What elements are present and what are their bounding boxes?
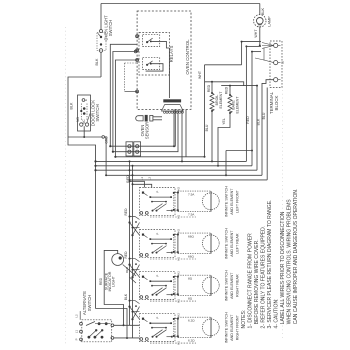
wire: cascade stub 2 (246, 45, 261, 47)
wire: indicator top loop (104, 250, 123, 325)
dashed inter-row pilot line (150, 300, 196, 302)
wire: lamp to terminal 1 (259, 27, 261, 46)
infinite switch row 3 (RIGHT REAR) (140, 272, 176, 300)
terminal 1 (274, 43, 278, 47)
wire: relay K1 wrap (151, 41, 170, 48)
svg-text:P: P (156, 191, 160, 193)
svg-text:LEFT REAR: LEFT REAR (236, 233, 240, 254)
svg-text:OVEN CONTROL: OVEN CONTROL (185, 39, 190, 75)
relays dashed box (139, 33, 170, 76)
svg-text:H2: H2 (177, 271, 181, 275)
oven light switch S1 (100, 4, 102, 30)
svg-text:AND ELEMENT: AND ELEMENT (230, 272, 234, 299)
svg-text:NC: NC (82, 119, 86, 124)
wire: top border run BLK (101, 3, 260, 5)
wire: broil top run y81.8 (205, 82, 244, 86)
svg-text:BLK: BLK (124, 293, 128, 300)
bake element zigzag (228, 95, 232, 113)
wire: riser tap to row1 area (226, 150, 252, 152)
wire: cascade to terminal 1 (241, 41, 261, 43)
svg-text:6.2Ω: 6.2Ω (188, 318, 195, 322)
wire: WHT drop to bus (204, 82, 206, 157)
wire: relay K2 wrap (146, 64, 163, 71)
svg-text:RED: RED (125, 266, 129, 273)
svg-text:RED: RED (124, 251, 128, 259)
svg-text:RIGHT FRONT: RIGHT FRONT (236, 314, 240, 340)
svg-text:WHEN SERVICING CONTROLS. WIRIN: WHEN SERVICING CONTROLS. WIRING PROBLEMS (287, 199, 293, 329)
element row 1 box (173, 187, 211, 219)
svg-text:SWITCH: SWITCH (108, 20, 113, 37)
door lock switch S2 (78, 95, 91, 131)
wire: dashed aux loop into control box (124, 63, 126, 92)
wire: bake top run y85.6 (221, 85, 257, 87)
surface indicator light (112, 254, 124, 266)
terminal 2 (274, 61, 278, 65)
dashed inter-row pilot line (150, 216, 196, 218)
wire: terminal 1-2 link (263, 48, 265, 61)
wire: cascade stub 3 (252, 51, 261, 53)
relay K1 terminal marks on box edge (136, 35, 139, 38)
svg-text:BLK: BLK (95, 58, 99, 66)
svg-text:AND ELEMENT: AND ELEMENT (230, 230, 234, 257)
svg-text:66Ω: 66Ω (188, 234, 194, 238)
svg-text:RIGHT REAR: RIGHT REAR (236, 274, 240, 297)
svg-text:NOTES:: NOTES: (241, 310, 247, 329)
svg-text:YEL: YEL (222, 118, 226, 125)
svg-text:BEFORE REMOVING WIRE COVER.: BEFORE REMOVING WIRE COVER. (254, 239, 260, 328)
element row 4 box (173, 313, 211, 345)
terminal block dashed box (270, 41, 282, 88)
svg-text:SWITCH: SWITCH (95, 104, 100, 121)
wire: feeder diagonals (130, 307, 140, 320)
alternate switch dashed box (82, 320, 112, 342)
wire: row1 feeders from bus (130, 181, 145, 187)
terminal 3 (274, 78, 278, 82)
wire: riser 2 full (251, 52, 253, 166)
svg-text:6.2Ω: 6.2Ω (188, 338, 195, 342)
surface element coil 2 (202, 233, 219, 254)
svg-text:AND ELEMENT: AND ELEMENT (230, 314, 234, 341)
wire: feeder diagonals (130, 265, 140, 278)
svg-text:3- SERVICER PLEASE RETURN DIAG: 3- SERVICER PLEASE RETURN DIAGRAM TO RAN… (267, 199, 273, 328)
svg-text:RED: RED (225, 86, 229, 94)
surface element coil 3 (202, 275, 219, 296)
element row 3 box (173, 271, 211, 303)
lamp DE1 oven lamp (254, 15, 266, 27)
svg-text:NO: NO (76, 117, 80, 122)
svg-text:7.5A: 7.5A (188, 192, 195, 196)
svg-text:2- REFER ONLY TO FEATURES EQUI: 2- REFER ONLY TO FEATURES EQUIPPED. (261, 226, 267, 329)
svg-text:L1: L1 (140, 177, 144, 181)
infinite switch row 4 (RIGHT FRONT) (140, 314, 176, 342)
svg-text:WHT: WHT (198, 70, 202, 79)
svg-text:H2: H2 (177, 313, 181, 317)
svg-text:INFINITE SWITCH: INFINITE SWITCH (225, 228, 229, 259)
svg-text:LEFT FRONT: LEFT FRONT (236, 190, 240, 213)
svg-text:RED: RED (246, 116, 250, 124)
svg-text:CAN CAUSE IMPROPER AND DANGERO: CAN CAUSE IMPROPER AND DANGEROUS OPERATI… (293, 189, 299, 329)
fold line left faint (65, 27, 67, 346)
svg-text:BLU: BLU (205, 124, 209, 131)
harness bus upper connector runs (110, 109, 175, 146)
svg-text:BLK: BLK (256, 118, 260, 125)
svg-text:WHT: WHT (254, 29, 258, 38)
wire: left border to row4 area (96, 309, 128, 339)
infinite switch row 1 (LEFT FRONT) (140, 188, 176, 216)
svg-text:8Ω: 8Ω (188, 296, 193, 300)
svg-text:AND ELEMENT: AND ELEMENT (230, 188, 234, 215)
svg-text:INFINITE SWITCH: INFINITE SWITCH (225, 270, 229, 301)
svg-text:4- CAUTION:: 4- CAUTION: (274, 298, 280, 328)
svg-text:RED: RED (99, 277, 103, 285)
svg-text:BLK: BLK (261, 7, 265, 15)
svg-text:BLK: BLK (70, 102, 74, 110)
relay K2 (143, 58, 160, 70)
wire: alt switch L2 stub (79, 311, 81, 320)
wire: bake bottom to bus via YEL (218, 113, 230, 166)
infinite switch row 2 (LEFT REAR) (140, 230, 176, 258)
svg-text:INFINITE SWITCH: INFINITE SWITCH (225, 312, 229, 343)
wire: riser to block bottom (266, 88, 268, 180)
wire: ground run y137 (68, 136, 102, 138)
wire: feeder diagonals (130, 223, 140, 236)
fold line right faint (282, 90, 284, 340)
svg-text:GRD: GRD (105, 136, 109, 144)
wire: alt switch outputs to row4 (114, 324, 140, 326)
svg-text:H2: H2 (177, 187, 181, 191)
wire: left border run down to surface section (68, 77, 101, 309)
svg-text:P: P (75, 338, 79, 340)
svg-text:1- DISCONNECT RANGE FROM POWER: 1- DISCONNECT RANGE FROM POWER (248, 233, 254, 329)
wire: riser to terminal 3 (262, 80, 274, 176)
wire: door lock drop (83, 126, 85, 137)
surface feeder verticals (129, 161, 131, 325)
svg-text:INFINITE SWITCH: INFINITE SWITCH (225, 186, 229, 217)
svg-text:H2: H2 (177, 229, 181, 233)
oven control EOC dashed enclosure (137, 11, 191, 109)
svg-text:RED: RED (124, 208, 128, 216)
dashed inter-row pilot line (150, 342, 196, 344)
svg-text:ELEMENT: ELEMENT (236, 96, 240, 114)
svg-text:RED: RED (207, 84, 211, 92)
wire: oven control left taps to bundle (110, 44, 137, 146)
svg-text:LAMP: LAMP (268, 16, 272, 27)
svg-text:L2: L2 (148, 177, 152, 181)
harness connector blocks (126, 142, 133, 156)
relay K1 (143, 35, 160, 47)
wire: terminal 2 feed (255, 58, 274, 63)
svg-text:SENSOR: SENSOR (144, 122, 149, 139)
alternate switch contacts (86, 322, 95, 326)
wire: broil bottom to bus (211, 111, 213, 161)
wire: riser 1 full (245, 46, 247, 161)
harness bus lower band with right risers (96, 160, 247, 162)
svg-text:BLU: BLU (262, 112, 266, 119)
wire: indicator diagonals to switches (123, 265, 136, 277)
wire: fan-in terminal 1 (262, 43, 274, 49)
broil element zigzag (210, 93, 214, 111)
svg-text:P: P (156, 233, 160, 235)
svg-text:7.5A: 7.5A (188, 212, 195, 216)
svg-text:66Ω: 66Ω (188, 254, 194, 258)
svg-text:LABEL ALL WIRES PRIOR TO DISCO: LABEL ALL WIRES PRIOR TO DISCONNECTION (280, 211, 286, 328)
svg-text:LIGHT: LIGHT (111, 275, 115, 287)
oven sensor probe (136, 116, 143, 121)
dashed inter-row pilot line (150, 258, 196, 260)
svg-text:L2: L2 (75, 314, 79, 318)
surface element coil 4 (202, 317, 219, 338)
element row 2 box (173, 229, 211, 261)
svg-text:L1: L1 (75, 330, 79, 334)
svg-text:P: P (156, 275, 160, 277)
svg-text:ELEMENT: ELEMENT (219, 91, 223, 109)
relay K2 terminal marks on box edge (136, 49, 139, 52)
svg-text:BLOCK: BLOCK (274, 95, 279, 110)
display connector on oven control (162, 99, 184, 113)
wire: broil feed run y64.8 (205, 64, 242, 66)
svg-text:P: P (156, 317, 160, 319)
wire: lamp drop (259, 4, 261, 15)
wire: riser 3 to bake run (256, 86, 258, 171)
surface element coil 1 (202, 191, 219, 212)
svg-text:8Ω: 8Ω (188, 276, 193, 280)
svg-text:SWITCH: SWITCH (87, 295, 92, 312)
